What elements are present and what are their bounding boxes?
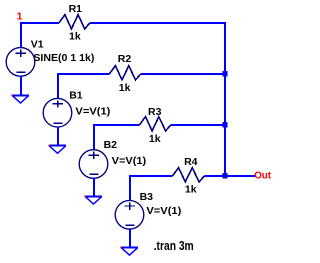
behavioral source B3 bbox=[115, 201, 144, 230]
resistor R1 bbox=[59, 15, 90, 29]
svg-text:B2: B2 bbox=[104, 139, 118, 151]
svg-text:R1: R1 bbox=[69, 3, 83, 15]
wire bbox=[141, 73, 224, 75]
wire bbox=[20, 22, 22, 48]
resistor R3 bbox=[140, 117, 171, 131]
svg-text:1k: 1k bbox=[119, 82, 131, 94]
svg-text:V=V(1): V=V(1) bbox=[146, 205, 181, 217]
svg-text:V=V(1): V=V(1) bbox=[112, 155, 147, 167]
ground bbox=[11, 94, 29, 103]
resistor R4 bbox=[173, 168, 205, 182]
svg-text:1k: 1k bbox=[185, 183, 197, 195]
svg-text:1: 1 bbox=[17, 10, 23, 22]
wire bbox=[93, 178, 95, 197]
wire bbox=[171, 124, 224, 126]
wire bbox=[57, 126, 59, 145]
ground bbox=[48, 145, 66, 154]
ground bbox=[120, 247, 138, 256]
svg-text:1k: 1k bbox=[149, 133, 161, 145]
wire bbox=[224, 175, 256, 177]
voltage source V1 bbox=[6, 48, 35, 77]
wire bbox=[20, 22, 59, 24]
wire bbox=[205, 175, 225, 177]
svg-text:V=V(1): V=V(1) bbox=[75, 105, 110, 117]
svg-text:SINE(0 1 1k): SINE(0 1 1k) bbox=[33, 52, 94, 64]
wire bbox=[57, 73, 59, 99]
svg-text:R2: R2 bbox=[118, 53, 132, 65]
junction node at R3 output bbox=[222, 122, 227, 128]
svg-text:Out: Out bbox=[254, 170, 271, 182]
behavioral source B2 bbox=[79, 150, 108, 179]
svg-text:.tran 3m: .tran 3m bbox=[154, 239, 194, 253]
wire bbox=[90, 22, 226, 24]
junction node at R2 output bbox=[222, 71, 227, 77]
ground bbox=[84, 195, 102, 204]
wire bbox=[93, 124, 95, 150]
svg-text:B3: B3 bbox=[140, 191, 154, 203]
wire bbox=[57, 73, 109, 75]
wire bbox=[129, 175, 173, 177]
behavioral source B1 bbox=[43, 98, 72, 127]
svg-text:1k: 1k bbox=[69, 31, 81, 43]
svg-text:B1: B1 bbox=[69, 89, 83, 101]
wire bbox=[20, 76, 22, 96]
wire bbox=[129, 229, 131, 248]
wire bbox=[129, 175, 131, 201]
junction node Out bbox=[222, 173, 227, 179]
wire bbox=[93, 124, 140, 126]
svg-text:V1: V1 bbox=[31, 39, 44, 51]
resistor R2 bbox=[109, 66, 140, 80]
wire bbox=[224, 22, 226, 177]
svg-text:R3: R3 bbox=[148, 106, 162, 118]
svg-text:R4: R4 bbox=[184, 156, 198, 168]
